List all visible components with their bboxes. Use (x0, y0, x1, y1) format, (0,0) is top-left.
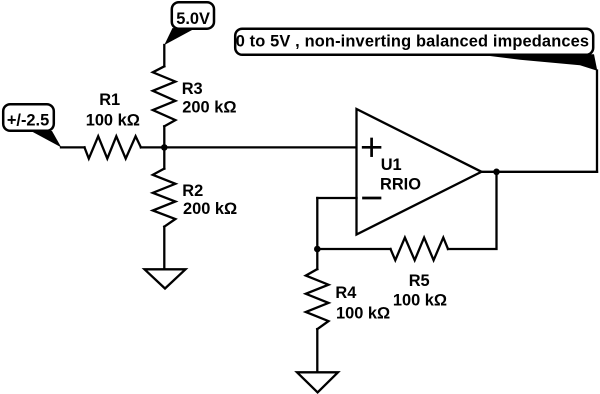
svg-text:+/-2.5: +/-2.5 (7, 112, 49, 130)
svg-text:U1: U1 (381, 156, 402, 174)
svg-text:200 kΩ: 200 kΩ (183, 200, 237, 218)
svg-text:RRIO: RRIO (380, 176, 421, 194)
svg-text:R4: R4 (335, 284, 357, 302)
svg-text:R3: R3 (182, 80, 203, 98)
svg-text:200 kΩ: 200 kΩ (182, 99, 236, 117)
svg-text:R5: R5 (409, 272, 430, 290)
svg-text:0 to 5V , non-inverting balanc: 0 to 5V , non-inverting balanced impedan… (236, 33, 589, 51)
svg-text:R2: R2 (182, 182, 203, 200)
svg-text:100 kΩ: 100 kΩ (86, 112, 140, 130)
svg-text:100 kΩ: 100 kΩ (393, 291, 447, 309)
svg-text:100 kΩ: 100 kΩ (336, 304, 390, 322)
svg-text:R1: R1 (99, 91, 120, 109)
svg-text:5.0V: 5.0V (176, 10, 210, 28)
